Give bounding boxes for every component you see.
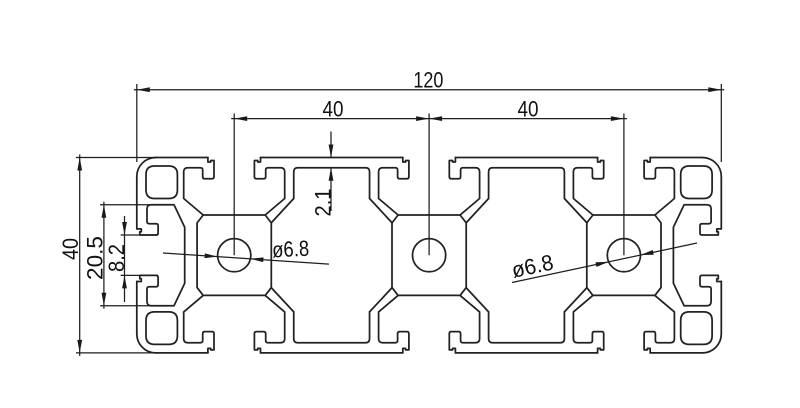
svg-text:120: 120	[413, 67, 443, 92]
svg-text:8.2: 8.2	[104, 244, 129, 272]
svg-text:40: 40	[323, 96, 344, 121]
svg-text:2.1: 2.1	[311, 189, 336, 217]
svg-text:40: 40	[518, 96, 539, 121]
svg-text:40: 40	[58, 238, 83, 260]
svg-text:ø6.8: ø6.8	[271, 236, 309, 263]
